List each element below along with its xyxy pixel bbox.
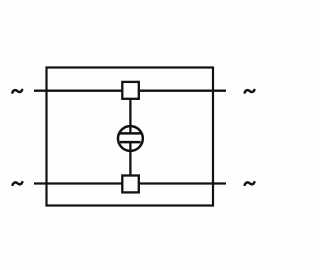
electrode plate top: [120, 132, 141, 135]
AC symbol bottom-left: [13, 182, 23, 185]
wire vertical bottom: [129, 142, 131, 183]
AC symbol top-left: [12, 90, 22, 93]
disconnect F1 top square: [122, 82, 139, 99]
wire N bottom: [34, 182, 226, 184]
disconnect F2 bottom square: [122, 176, 139, 193]
wire L1 top: [34, 90, 226, 92]
AC symbol top-right: [245, 90, 255, 93]
electrode plate bottom: [120, 141, 141, 144]
enclosure box: [47, 68, 214, 206]
AC symbol bottom-right: [245, 182, 255, 185]
arrester U1 gas discharge tube: [118, 126, 143, 151]
wire vertical top: [129, 91, 131, 134]
